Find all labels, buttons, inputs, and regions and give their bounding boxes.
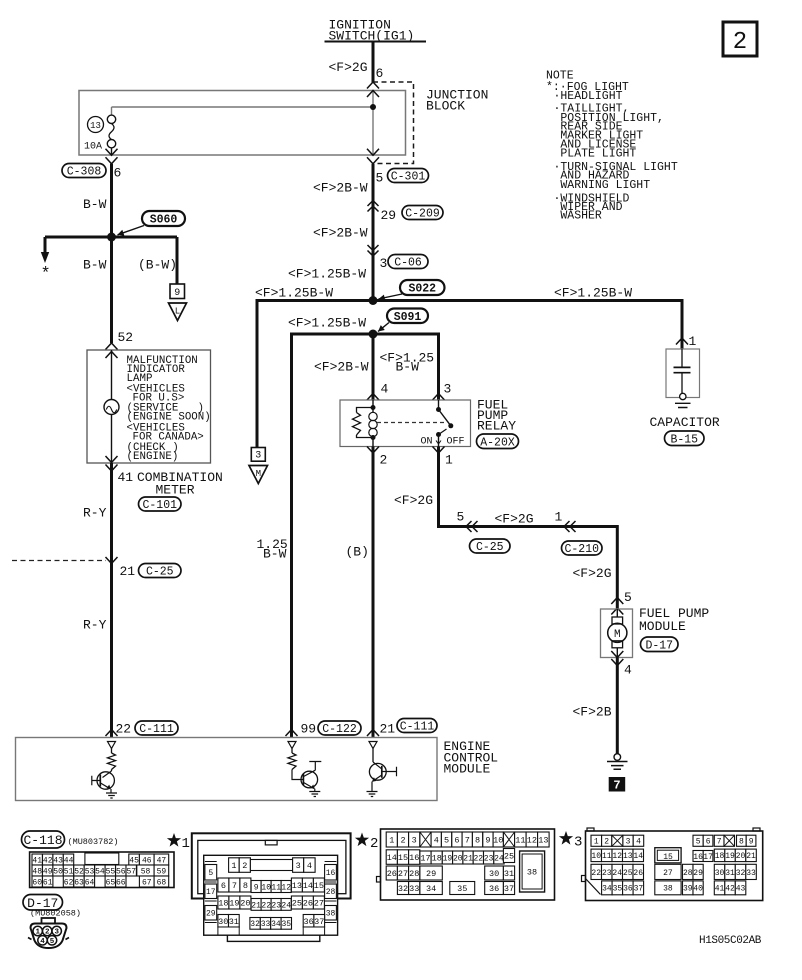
svg-text:33: 33 — [409, 884, 419, 894]
wire B-W to combination meter — [110, 237, 113, 343]
chevrons relay entry — [367, 394, 445, 401]
svg-text:37: 37 — [504, 884, 514, 894]
svg-text:BLOCK: BLOCK — [426, 99, 465, 114]
svg-text:1: 1 — [182, 836, 190, 852]
svg-text:3: 3 — [296, 861, 301, 871]
svg-text:34: 34 — [426, 884, 436, 894]
svg-text:3: 3 — [626, 838, 631, 847]
connector C-25 — [139, 564, 182, 579]
svg-text:57: 57 — [126, 867, 136, 876]
svg-text:C-118: C-118 — [23, 833, 62, 848]
svg-text:15: 15 — [314, 881, 324, 891]
engine control module label — [444, 739, 499, 777]
svg-text:15: 15 — [398, 853, 408, 863]
svg-text:6: 6 — [114, 166, 122, 181]
transistor circuit Q2 — [288, 742, 321, 797]
chevron ECM entry left — [106, 730, 118, 737]
chevrons fuel pump module exit — [611, 651, 623, 666]
svg-text:9: 9 — [174, 288, 180, 299]
svg-text:S091: S091 — [394, 311, 422, 324]
svg-text:10: 10 — [493, 836, 503, 846]
star 1 marker — [167, 833, 190, 852]
connector C-118 pin grid — [30, 852, 174, 888]
svg-text:3: 3 — [412, 836, 417, 846]
svg-text:6: 6 — [706, 838, 711, 847]
connector star2 shell — [377, 829, 555, 900]
svg-text:22: 22 — [116, 722, 132, 737]
wire R-Y combination meter to ECM — [110, 463, 113, 738]
svg-text:53: 53 — [85, 867, 95, 876]
svg-text:(MU802058): (MU802058) — [30, 909, 81, 919]
svg-text:41: 41 — [118, 470, 134, 485]
svg-text:OFF: OFF — [447, 437, 465, 448]
chevrons at junction block exit left — [106, 149, 118, 164]
svg-text:43: 43 — [53, 856, 63, 865]
svg-text:22: 22 — [261, 901, 271, 910]
star 3 marker — [559, 831, 583, 851]
svg-text:2: 2 — [604, 838, 609, 847]
svg-text:45: 45 — [129, 856, 139, 865]
svg-text:C-122: C-122 — [322, 723, 357, 736]
svg-text:C-111: C-111 — [139, 723, 174, 736]
svg-text:37: 37 — [314, 917, 324, 927]
svg-text:*: * — [41, 265, 51, 284]
svg-text:1: 1 — [594, 838, 599, 847]
splice S091 — [378, 309, 428, 332]
svg-text:54: 54 — [95, 867, 105, 876]
svg-text:<F>2G: <F>2G — [573, 566, 612, 581]
svg-text:4: 4 — [40, 938, 45, 946]
svg-text:PLATE LIGHT: PLATE LIGHT — [560, 148, 636, 161]
svg-text:7: 7 — [717, 838, 722, 847]
svg-text:): ) — [172, 442, 178, 454]
wire 2B-W S091 to relay pin 4 — [372, 334, 375, 400]
chevrons at junction block entry — [367, 82, 379, 97]
svg-text:<F>1.25B-W: <F>1.25B-W — [255, 286, 333, 301]
dashed boundary line — [12, 560, 106, 562]
svg-text:6: 6 — [376, 66, 384, 81]
svg-text:23: 23 — [484, 854, 494, 863]
relay switch contact — [436, 400, 453, 447]
connector D-17 — [641, 637, 679, 652]
svg-text:15: 15 — [663, 853, 673, 862]
relay position arrow — [436, 437, 441, 444]
svg-text:2: 2 — [400, 836, 405, 846]
junction block label — [426, 88, 488, 114]
svg-text:36: 36 — [303, 917, 313, 927]
svg-text:M: M — [614, 629, 621, 641]
connector C-118 label — [22, 831, 65, 848]
svg-text:68: 68 — [157, 878, 167, 887]
wire left branch to other circuits — [44, 237, 47, 252]
fuel pump relay label — [477, 398, 516, 434]
svg-text:19: 19 — [725, 852, 735, 861]
svg-text:34: 34 — [602, 885, 612, 894]
combination meter label — [137, 470, 223, 498]
svg-text:MODULE: MODULE — [639, 619, 686, 634]
svg-text:3: 3 — [574, 835, 582, 851]
chevrons at junction block exit right — [367, 149, 379, 164]
chevrons C-210 inline — [564, 521, 576, 532]
svg-text:3: 3 — [54, 929, 59, 937]
connector box 9 — [170, 284, 185, 299]
svg-text:33: 33 — [746, 869, 756, 878]
svg-text:63: 63 — [74, 878, 84, 887]
relay coil circuit — [353, 400, 378, 447]
page number box 2 — [723, 22, 757, 56]
connector D-17 label — [23, 895, 63, 911]
svg-text:5: 5 — [457, 510, 465, 525]
svg-text:52: 52 — [74, 867, 84, 876]
svg-text:50: 50 — [53, 867, 63, 876]
connector star3 pins — [591, 835, 756, 895]
svg-text:2: 2 — [242, 861, 247, 871]
svg-text:99: 99 — [301, 722, 317, 737]
svg-text:<F>2B: <F>2B — [573, 705, 612, 720]
connector C-101 — [139, 497, 182, 512]
svg-text:C-210: C-210 — [564, 543, 599, 556]
svg-text:62: 62 — [64, 878, 74, 887]
wire relay pin1 to fuel pump module — [439, 447, 618, 610]
svg-text:8: 8 — [739, 838, 744, 847]
svg-text:METER: METER — [156, 483, 195, 498]
wire right branch to connector 9 — [176, 237, 179, 284]
svg-text:61: 61 — [43, 878, 53, 887]
connector C-209 — [402, 206, 443, 221]
label <F>1.25 B-W to relay pin 3 — [380, 351, 435, 375]
svg-text:65: 65 — [106, 878, 116, 887]
connector C-301 — [388, 169, 429, 184]
svg-text:40: 40 — [693, 885, 703, 894]
svg-text:25: 25 — [292, 899, 302, 909]
svg-text:9: 9 — [485, 836, 490, 846]
ignition switch IG1 label — [325, 18, 427, 44]
svg-text:38: 38 — [527, 868, 537, 878]
svg-text:24: 24 — [281, 901, 291, 910]
svg-text:(MU803782): (MU803782) — [68, 837, 119, 847]
chevrons relay exit — [367, 447, 445, 454]
svg-text:MODULE: MODULE — [444, 762, 491, 777]
connector A-20X — [477, 434, 519, 449]
junction block inner box — [79, 91, 406, 156]
star 2 marker — [355, 833, 379, 853]
svg-text:42: 42 — [43, 856, 53, 865]
svg-text:A-20X: A-20X — [480, 436, 515, 449]
svg-text:14: 14 — [387, 853, 397, 863]
svg-text:49: 49 — [43, 867, 53, 876]
svg-text:): ) — [198, 403, 204, 415]
svg-text:2: 2 — [380, 453, 388, 468]
svg-text:35: 35 — [281, 920, 291, 929]
connector C-308 — [62, 164, 106, 179]
svg-text:30: 30 — [715, 869, 725, 878]
svg-text:67: 67 — [142, 878, 152, 887]
svg-text:22: 22 — [591, 869, 601, 878]
svg-text:41: 41 — [32, 856, 42, 865]
svg-text:7: 7 — [613, 779, 620, 793]
svg-text:RELAY: RELAY — [477, 419, 516, 434]
combination meter box — [87, 350, 211, 463]
chevrons C-06 — [368, 245, 379, 256]
svg-text:42: 42 — [725, 885, 735, 894]
svg-text:(B): (B) — [346, 545, 369, 560]
svg-text:24: 24 — [494, 854, 504, 863]
svg-text:11: 11 — [602, 852, 612, 861]
svg-text:S022: S022 — [408, 283, 436, 296]
svg-text:28: 28 — [683, 869, 693, 878]
svg-text:ON: ON — [421, 437, 433, 448]
svg-text:23: 23 — [602, 869, 612, 878]
svg-text:29: 29 — [693, 869, 703, 878]
svg-text:41: 41 — [715, 885, 725, 894]
wire S091 branch — [292, 334, 439, 738]
connector D-17 face — [28, 918, 69, 948]
svg-text:39: 39 — [683, 885, 693, 894]
svg-text:37: 37 — [634, 885, 644, 894]
svg-text:17: 17 — [206, 888, 216, 897]
fuse 13 10A — [88, 115, 116, 155]
svg-text:8: 8 — [475, 836, 480, 846]
svg-text:10A: 10A — [84, 142, 102, 153]
svg-text:12: 12 — [612, 852, 622, 861]
svg-text:8: 8 — [243, 881, 248, 891]
svg-text:1: 1 — [231, 861, 236, 871]
svg-text:3: 3 — [255, 451, 261, 462]
svg-text:52: 52 — [118, 330, 134, 345]
fuel pump module box — [601, 609, 633, 658]
svg-text:5: 5 — [444, 836, 449, 846]
svg-text:10: 10 — [591, 852, 601, 861]
svg-text:R-Y: R-Y — [83, 618, 107, 633]
svg-text:19: 19 — [229, 899, 239, 909]
svg-text:4: 4 — [381, 382, 389, 397]
svg-text:M: M — [256, 469, 261, 479]
svg-text:<F>1.25B-W: <F>1.25B-W — [554, 286, 632, 301]
svg-text:12: 12 — [281, 883, 291, 892]
connector star1 pin block — [204, 855, 338, 941]
junction block internal node — [370, 104, 376, 110]
svg-text:48: 48 — [32, 867, 42, 876]
fuel pump module label — [639, 606, 709, 634]
svg-text:1: 1 — [689, 334, 697, 349]
svg-text:18: 18 — [432, 854, 442, 864]
relay actuation dashed link — [377, 422, 446, 424]
svg-text:B-15: B-15 — [670, 433, 698, 446]
transistor circuit Q3 — [367, 742, 397, 797]
svg-text:4: 4 — [636, 838, 641, 847]
svg-text:C-25: C-25 — [476, 541, 504, 554]
svg-text:22: 22 — [473, 854, 483, 863]
svg-text:34: 34 — [271, 920, 281, 929]
node S022 junction — [369, 296, 378, 305]
svg-text:1: 1 — [389, 836, 394, 846]
svg-text:21: 21 — [746, 852, 756, 861]
svg-text:B-W: B-W — [263, 547, 287, 562]
fuel pump motor — [608, 609, 627, 658]
fuel pump relay box — [340, 400, 471, 447]
svg-text:C-111: C-111 — [400, 721, 435, 734]
svg-text:26: 26 — [633, 869, 643, 878]
svg-text:31: 31 — [725, 869, 735, 878]
svg-text:16: 16 — [409, 853, 419, 863]
svg-text:20: 20 — [736, 852, 746, 861]
svg-text:H1S05C02AB: H1S05C02AB — [699, 935, 762, 947]
svg-text:28: 28 — [409, 869, 419, 879]
connector star2 pins — [386, 832, 549, 895]
chevrons C-209 — [368, 201, 379, 212]
svg-text:46: 46 — [142, 856, 152, 865]
svg-text:1: 1 — [35, 929, 40, 937]
engine control module box — [16, 738, 438, 801]
svg-text:11: 11 — [515, 836, 525, 846]
svg-text:(ENGINE): (ENGINE) — [127, 451, 179, 463]
svg-text:55: 55 — [106, 867, 116, 876]
wire ignition switch to junction block — [372, 42, 375, 83]
svg-text:<F>2G: <F>2G — [394, 493, 433, 508]
svg-text:9: 9 — [254, 883, 259, 892]
wire 2B-W C-301 to C-209 — [372, 164, 375, 301]
svg-text:WARNING LIGHT: WARNING LIGHT — [560, 179, 650, 192]
svg-text:6: 6 — [454, 836, 459, 846]
svg-text:<F>2B-W: <F>2B-W — [313, 181, 368, 196]
svg-text:38: 38 — [326, 910, 336, 919]
svg-text:27: 27 — [663, 869, 673, 878]
svg-text:R-Y: R-Y — [83, 506, 107, 521]
chevrons ECM entry center — [286, 730, 380, 737]
svg-text:5: 5 — [376, 171, 384, 186]
svg-text:66: 66 — [116, 878, 126, 887]
svg-text:1: 1 — [445, 453, 453, 468]
svg-text:4: 4 — [624, 663, 632, 678]
svg-text:32: 32 — [736, 869, 746, 878]
svg-text:<F>2G: <F>2G — [329, 60, 368, 75]
node S091 junction — [369, 330, 378, 339]
label 1.25 B-W — [257, 537, 288, 562]
ground capacitor — [675, 403, 691, 407]
svg-text:29: 29 — [206, 910, 216, 919]
svg-text:5: 5 — [624, 590, 632, 605]
svg-text:47: 47 — [157, 856, 167, 865]
junction block dashed outline — [373, 82, 414, 164]
svg-text:17: 17 — [703, 853, 713, 862]
svg-text:17: 17 — [420, 854, 430, 864]
malfunction indicator lamp symbol — [104, 400, 119, 415]
svg-text:3: 3 — [444, 382, 452, 397]
connector C-111 left — [135, 721, 178, 736]
svg-text:24: 24 — [612, 869, 622, 878]
chevrons fuel pump module entry — [611, 598, 623, 615]
svg-text:43: 43 — [736, 885, 746, 894]
malfunction indicator lamp text — [127, 355, 211, 463]
ground fuel pump — [607, 754, 628, 770]
svg-text:64: 64 — [85, 878, 95, 887]
connector star1 shell — [192, 833, 351, 898]
svg-text:4: 4 — [434, 836, 439, 846]
svg-text:59: 59 — [157, 867, 167, 876]
svg-text:CAPACITOR: CAPACITOR — [650, 415, 720, 430]
svg-text:26: 26 — [303, 899, 313, 909]
svg-text:11: 11 — [271, 883, 281, 892]
svg-text:16: 16 — [693, 853, 703, 862]
svg-text:20: 20 — [240, 899, 250, 909]
svg-text:33: 33 — [261, 920, 271, 929]
svg-text:B-W: B-W — [83, 197, 107, 212]
wire <F>2B to ground — [616, 658, 619, 754]
svg-text:14: 14 — [303, 881, 313, 891]
svg-text:18: 18 — [218, 899, 228, 909]
capacitor C symbol — [674, 349, 691, 400]
svg-text:C-06: C-06 — [394, 257, 422, 270]
chevron capacitor entry — [676, 338, 688, 345]
connector C-210 inline — [562, 541, 603, 556]
connector C-111 right — [397, 719, 437, 734]
svg-text:16: 16 — [326, 869, 336, 878]
svg-text:B-W: B-W — [396, 360, 420, 375]
chevron at C-25 crossing — [106, 557, 118, 564]
wire B-W from C-308 to splice S060 — [110, 164, 113, 237]
wire inside combination meter — [111, 350, 113, 463]
svg-text:36: 36 — [623, 885, 633, 894]
svg-text:25: 25 — [623, 869, 633, 878]
triangle M destination — [249, 466, 268, 484]
svg-text:<F>2B-W: <F>2B-W — [314, 360, 369, 375]
svg-text:29: 29 — [426, 869, 436, 879]
chevrons combination meter entry — [106, 343, 118, 358]
svg-text:2: 2 — [370, 836, 378, 852]
svg-text:51: 51 — [64, 867, 74, 876]
svg-text:9: 9 — [749, 838, 754, 847]
transistor circuit Q1 — [92, 742, 117, 799]
svg-text:21: 21 — [251, 901, 261, 910]
node S060 junction — [107, 233, 116, 242]
svg-text:D-17: D-17 — [645, 639, 673, 652]
svg-text:21: 21 — [463, 854, 473, 863]
svg-text:C-308: C-308 — [67, 166, 102, 179]
svg-text:5: 5 — [696, 838, 701, 847]
svg-text:32: 32 — [398, 884, 408, 894]
svg-text:7: 7 — [465, 836, 470, 846]
svg-text:35: 35 — [457, 884, 467, 894]
svg-text:10: 10 — [261, 883, 271, 892]
svg-text:2: 2 — [45, 929, 50, 937]
svg-text:5: 5 — [50, 938, 55, 946]
ground point 7 marker — [609, 777, 626, 793]
wire S022 branch to capacitor and connector 3 — [257, 301, 682, 448]
svg-text:2: 2 — [733, 29, 747, 56]
svg-text:25: 25 — [504, 852, 514, 862]
svg-text:3: 3 — [380, 256, 388, 271]
svg-text:26: 26 — [387, 869, 397, 879]
chevrons combination meter exit — [106, 456, 118, 471]
svg-text:20: 20 — [453, 854, 463, 863]
svg-text:21: 21 — [120, 564, 136, 579]
svg-text:C-209: C-209 — [405, 208, 440, 221]
svg-text:23: 23 — [271, 901, 281, 910]
svg-text:<F>1.25B-W: <F>1.25B-W — [288, 316, 366, 331]
arrowhead to starred circuits — [41, 252, 49, 263]
svg-text:5: 5 — [208, 869, 213, 878]
svg-text:18: 18 — [715, 852, 725, 861]
svg-text:C-25: C-25 — [146, 566, 174, 579]
svg-text:38: 38 — [663, 885, 673, 894]
svg-text:<F>2B-W: <F>2B-W — [313, 226, 368, 241]
connector box 3 — [251, 448, 265, 462]
svg-text:19: 19 — [443, 854, 453, 863]
svg-text:58: 58 — [141, 867, 151, 876]
svg-text:31: 31 — [504, 869, 514, 879]
connector star3 shell — [582, 828, 763, 901]
splice S060 — [118, 211, 186, 236]
